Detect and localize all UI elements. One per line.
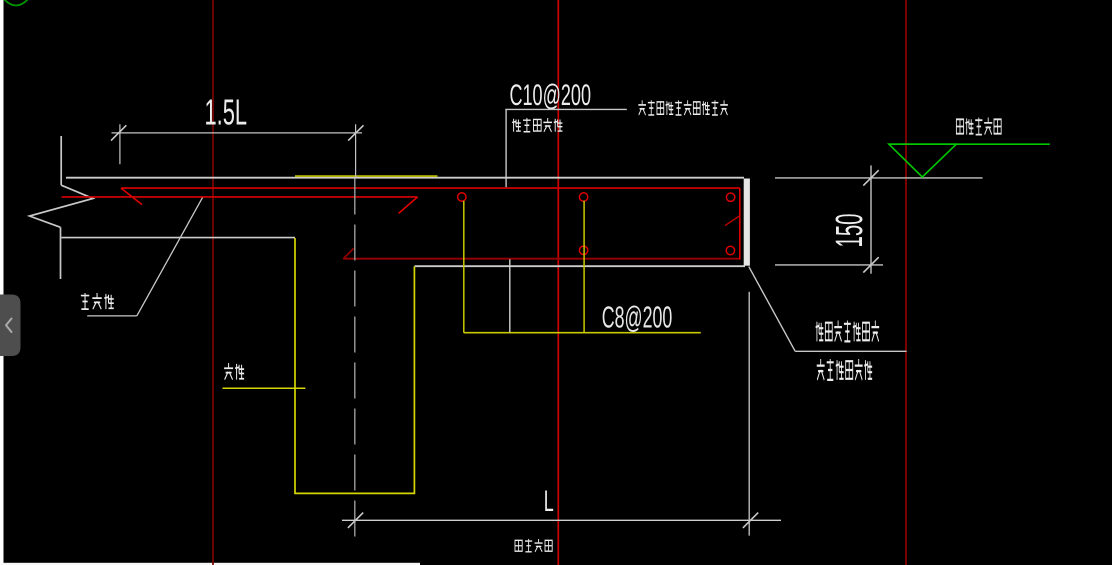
rebar section circle 3 — [726, 193, 734, 201]
top rebar line — [121, 187, 740, 189]
dimension L line — [342, 519, 781, 521]
embedded plate at slab end — [744, 179, 750, 266]
break symbol upper vertical — [60, 136, 62, 185]
rebar section circle 1 — [458, 193, 466, 201]
dimension 150 bottom tick — [863, 257, 878, 272]
break symbol lower vertical — [60, 227, 62, 279]
second rebar line — [62, 196, 418, 198]
svg-text:C10@200: C10@200 — [510, 79, 592, 112]
rebar slash mark — [725, 216, 740, 226]
level symbol triangle (green) — [889, 144, 956, 177]
label underline wire — [505, 108, 627, 110]
dimension L left tick — [348, 513, 363, 528]
C8 leader horizontal (yellow) — [464, 332, 701, 334]
rebar section circle 4 — [579, 246, 587, 254]
distribution bar vertical (white) — [509, 259, 511, 332]
break symbol zigzag — [30, 185, 94, 227]
dimension 150 vertical line — [870, 165, 872, 273]
label 板负筋 underline — [87, 315, 137, 317]
svg-text:150: 150 — [829, 214, 871, 248]
grid line axis 3 (red, x=906) — [905, 0, 907, 565]
label 见平面图 (pseudo glyphs) — [515, 539, 552, 552]
distribution bar vertical 1 (yellow) — [463, 201, 465, 333]
grid line axis 2 (bright red, x=558) — [557, 0, 559, 565]
label 挑板附加筋 (pseudo glyphs) — [512, 118, 562, 132]
label 结构层标高 (pseudo glyphs) — [956, 118, 1001, 135]
dimension 150 top extension — [775, 177, 983, 179]
bottom rebar line — [343, 258, 740, 260]
svg-text:1.5L: 1.5L — [205, 92, 248, 133]
dimension L right tick — [743, 513, 758, 528]
label 玻璃幕墙预埋件 (pseudo glyphs) — [816, 321, 880, 342]
dimension 150 bottom extension — [775, 264, 883, 266]
bottom rebar hook — [343, 248, 354, 258]
distribution bar vertical 2 (yellow) — [583, 201, 585, 333]
dimension 1.5L right tick — [348, 125, 363, 140]
dimension L right extension — [748, 292, 750, 536]
svg-text:C8@200: C8@200 — [602, 301, 673, 335]
label 板负筋 (pseudo glyphs) — [81, 293, 114, 309]
side panel tab chevron — [6, 319, 12, 333]
label leader vertical wire — [505, 109, 507, 187]
svg-text:L: L — [544, 485, 554, 518]
label 边梁 leader (yellow) — [223, 387, 306, 389]
top rebar hook — [121, 188, 142, 205]
curtain wall leader diagonal — [749, 267, 795, 352]
bottom white window edge strip — [0, 563, 420, 565]
dimension 1.5L right extension — [355, 124, 357, 178]
dimension 150 top tick — [863, 170, 878, 185]
dimension 1.5L line — [112, 132, 363, 134]
slab top line — [66, 177, 744, 179]
slab soffit left span — [62, 237, 296, 239]
label 和板内负筋绑扎在一起 (pseudo glyphs) — [638, 100, 728, 115]
rebar section circle 5 — [726, 246, 734, 254]
edge beam outline (yellow) — [295, 238, 414, 493]
label 板负筋 leader diagonal — [137, 198, 203, 316]
green arc fragment top-left — [3, 0, 29, 6]
left white window edge strip — [0, 0, 4, 565]
slab soffit cantilever — [415, 265, 746, 267]
dimension 1.5L left tick — [111, 125, 126, 140]
dimension 1.5L left extension — [119, 124, 121, 164]
rebar end vertical — [739, 188, 741, 260]
beam dashed center line — [354, 179, 356, 541]
side panel collapse tab — [0, 295, 21, 357]
label 边梁 (pseudo glyphs) — [224, 363, 244, 380]
label 厂家设计安装 (pseudo glyphs) — [817, 359, 872, 380]
grid line axis 1 (dark red, x=213) — [212, 0, 214, 565]
level symbol line (green) — [889, 143, 1050, 145]
curtain wall leader horizontal — [795, 350, 906, 352]
rebar section circle 2 — [579, 193, 587, 201]
yellow top bar segment over slab — [295, 175, 438, 177]
second rebar hook — [399, 197, 418, 214]
